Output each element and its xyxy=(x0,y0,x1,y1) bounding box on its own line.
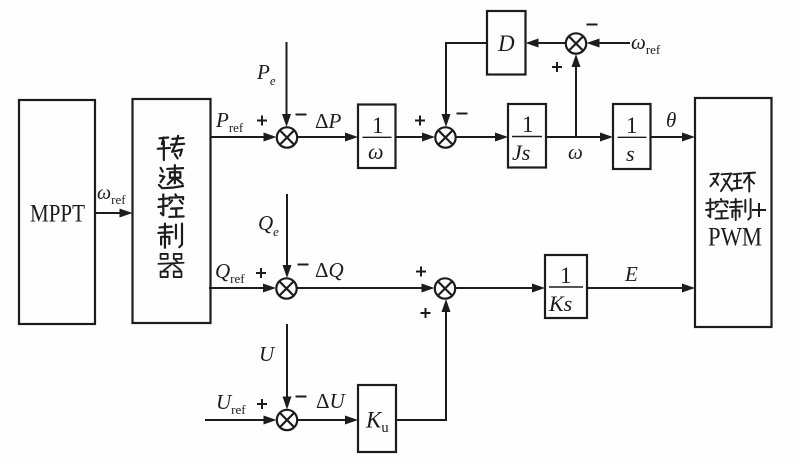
sign minus at P junction xyxy=(296,114,307,116)
sign minus at U junction xyxy=(296,396,307,398)
wire omega branch up xyxy=(575,66,577,137)
svg-text:Uref: Uref xyxy=(216,390,246,417)
wire D feedback down xyxy=(446,43,487,115)
svg-text:ω: ω xyxy=(368,139,384,164)
block 1/Ks box xyxy=(545,255,587,318)
sign minus at mid junction xyxy=(457,113,468,115)
fraction 1/s xyxy=(618,113,647,166)
wire U junction to Ku xyxy=(298,419,347,421)
svg-text:1: 1 xyxy=(560,263,572,288)
junction top sum xyxy=(566,33,586,53)
junction P sum xyxy=(277,127,297,147)
arrow omega-ref into top junction xyxy=(587,39,600,48)
sign plus at U junction xyxy=(257,399,267,409)
svg-text:ΔQ: ΔQ xyxy=(315,258,344,282)
wire MPPT to controller xyxy=(95,212,121,214)
sign minus at Q junction xyxy=(298,264,309,266)
block Ku box xyxy=(358,385,396,452)
wire 1/s to right box xyxy=(651,136,684,138)
wire mid junction to 1/Js xyxy=(457,136,497,138)
wire omega-ref input xyxy=(599,42,630,44)
block D box xyxy=(487,11,526,75)
svg-text:D: D xyxy=(497,31,515,56)
arrow into Ku xyxy=(345,416,358,425)
svg-text:Ku: Ku xyxy=(365,408,389,437)
sign plus at P junction xyxy=(257,116,267,126)
wire Ku feedback up xyxy=(396,311,446,420)
svg-text:E: E xyxy=(624,262,638,286)
svg-text:θ: θ xyxy=(666,108,676,132)
sign minus at top junction xyxy=(587,24,598,26)
fraction 1/Js xyxy=(512,112,542,165)
sign plus at mid junction xyxy=(415,116,425,126)
fraction 1/w xyxy=(363,113,392,164)
arrow omega into top junction xyxy=(572,54,581,67)
wire 1/w to mid junction xyxy=(396,136,424,138)
svg-text:Js: Js xyxy=(512,140,530,165)
svg-text:1: 1 xyxy=(372,113,384,138)
arrow into mid junction xyxy=(422,133,435,142)
junction U sum xyxy=(277,410,297,430)
wire 1/Ks to right box xyxy=(587,287,683,289)
arrow into controller xyxy=(120,209,133,218)
svg-text:MPPT: MPPT xyxy=(30,201,85,228)
svg-text:1: 1 xyxy=(626,113,638,138)
junction bottom mid sum xyxy=(435,278,455,298)
arrow U into U junction xyxy=(283,397,292,410)
arrow into bottom mid junction xyxy=(422,284,435,293)
svg-text:ω: ω xyxy=(568,140,583,164)
sign plus at top junction xyxy=(552,62,562,72)
arrow Uref into U junction xyxy=(264,416,277,425)
wire Qe drop xyxy=(286,194,288,266)
svg-text:Pe: Pe xyxy=(256,60,276,88)
arrow D into mid junction xyxy=(442,114,451,127)
wire Q junction to bottom mid junction xyxy=(297,287,422,289)
block 1/s box xyxy=(613,104,651,169)
arrow into 1/Js xyxy=(495,133,508,142)
svg-text:ωref: ωref xyxy=(97,182,126,207)
arrow into 1/w xyxy=(345,133,358,142)
arrow Ku feedback into bottom mid junction xyxy=(442,299,451,312)
wire top junction to D xyxy=(538,42,566,44)
svg-text:PWM: PWM xyxy=(708,223,762,252)
svg-text:Qe: Qe xyxy=(258,211,279,239)
svg-text:ΔP: ΔP xyxy=(315,109,342,133)
arrow into 1/s xyxy=(600,133,613,142)
wire Qref xyxy=(209,287,264,289)
label speed controller vertical hanzi xyxy=(158,136,184,277)
wire U drop xyxy=(286,324,288,397)
arrow Qe into Q junction xyxy=(283,265,292,278)
wire 1/Js to 1/s xyxy=(546,136,601,138)
sign plus left at bottom mid junction xyxy=(416,267,426,277)
arrow Qref into Q junction xyxy=(263,284,276,293)
block speed-controller box xyxy=(133,99,211,323)
sign plus at Q junction xyxy=(256,268,266,278)
wire Pref xyxy=(211,136,265,138)
svg-text:Pref: Pref xyxy=(215,108,244,135)
arrow Pe into P junction xyxy=(282,114,291,127)
block 1/w box xyxy=(358,105,396,169)
wire bottom mid junction to 1/Ks xyxy=(456,287,534,289)
svg-text:1: 1 xyxy=(522,112,534,137)
fraction 1/Ks xyxy=(548,263,583,316)
sign plus lower at bottom mid junction xyxy=(421,308,431,318)
svg-text:ΔU: ΔU xyxy=(316,389,347,413)
svg-text:U: U xyxy=(259,342,276,366)
arrow Pref into P junction xyxy=(264,133,277,142)
svg-text:Qref: Qref xyxy=(215,259,245,286)
arrow into 1/Ks xyxy=(532,284,545,293)
arrow E into right box xyxy=(682,284,695,293)
block MPPT box xyxy=(19,100,95,324)
label dual loop control + PWM xyxy=(706,173,766,252)
wire Uref xyxy=(205,419,264,421)
svg-text:s: s xyxy=(626,141,635,166)
arrow theta into right box xyxy=(682,133,695,142)
junction Q sum xyxy=(276,278,296,298)
arrow into D xyxy=(526,39,539,48)
block 1/Js box xyxy=(508,104,546,168)
junction mid sum xyxy=(435,127,455,147)
svg-text:ωref: ωref xyxy=(631,30,661,57)
wire Pjunction to 1/w xyxy=(298,136,347,138)
svg-text:Ks: Ks xyxy=(548,291,572,316)
wire Pe drop xyxy=(286,42,288,115)
block dual-loop-PWM box xyxy=(695,98,772,327)
